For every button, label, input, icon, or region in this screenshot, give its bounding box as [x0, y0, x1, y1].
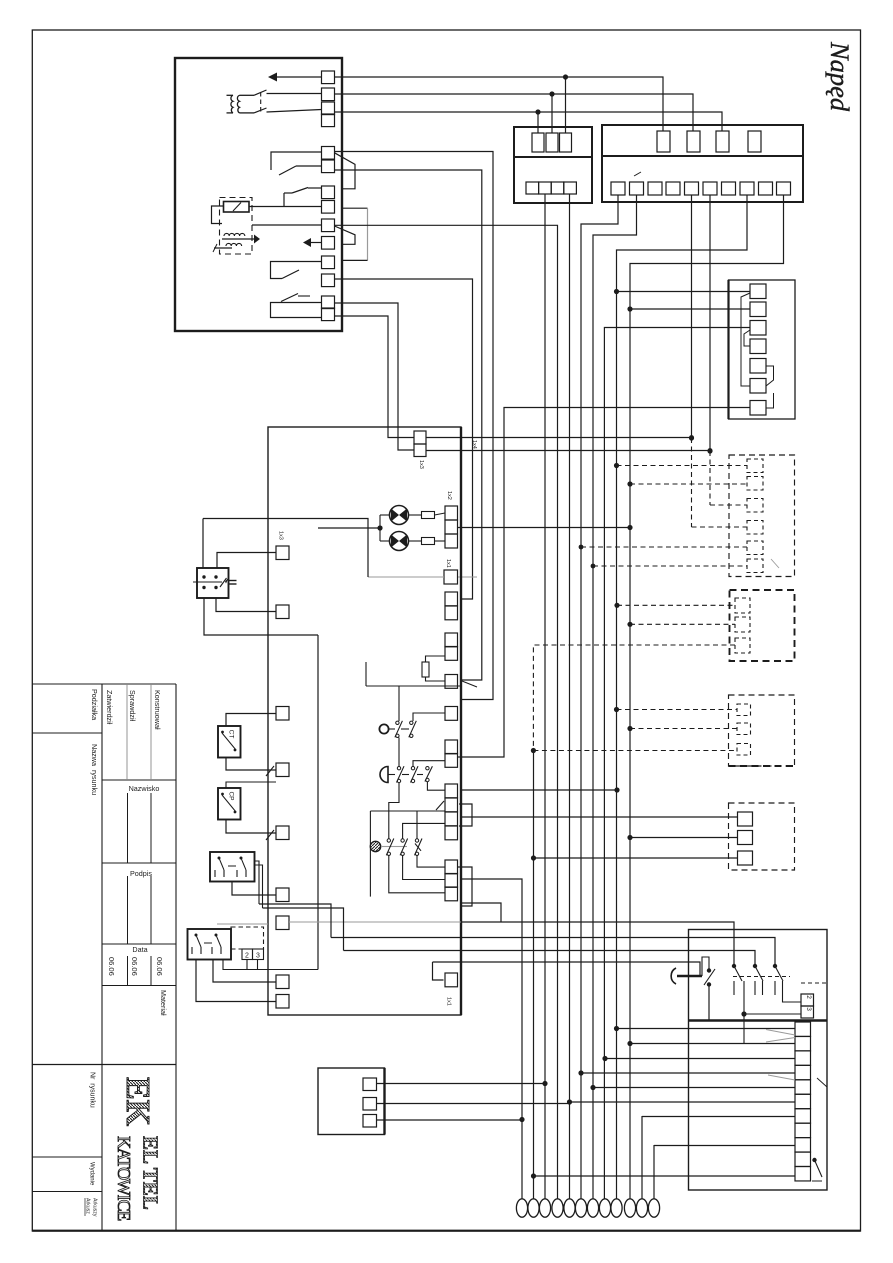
wire: [370, 810, 445, 812]
wire bus m: [630, 195, 784, 1199]
wire bus n: [461, 879, 522, 1199]
wire bus p: [641, 1116, 643, 1199]
cable connector CN1 pins: [516, 1199, 527, 1217]
wire L2: [335, 94, 694, 131]
svg-text:06.06: 06.06: [107, 957, 116, 976]
wire: [783, 995, 802, 1002]
wire: [263, 908, 344, 951]
junction box J1: [318, 1068, 385, 1135]
wire: [413, 761, 445, 767]
indicator lamp: [390, 506, 409, 525]
D3 terminal dashed: [737, 723, 751, 735]
wire: [398, 738, 400, 767]
wire: [433, 962, 701, 976]
wire: [702, 957, 709, 976]
faint wire: [289, 921, 461, 923]
tick: [771, 559, 779, 568]
X1 terminal 3: [551, 182, 564, 194]
wire bus c: [335, 279, 473, 599]
wire: [226, 820, 276, 834]
wire: [426, 656, 446, 662]
terminal 3: [801, 1006, 814, 1018]
dashed wire: [709, 451, 711, 505]
svg-text:Nazwisko: Nazwisko: [129, 784, 160, 793]
TB1 terminal 2: [795, 1036, 811, 1050]
connector block X2: [602, 125, 803, 202]
switch blade: [279, 166, 296, 175]
wire: [216, 598, 276, 612]
wire to TB: [630, 1043, 795, 1045]
aux terminal 2: [242, 949, 253, 960]
wire: [461, 922, 734, 966]
junction: [614, 289, 619, 294]
wire: [379, 515, 381, 541]
contact K3 (terminals 11/12): [271, 262, 322, 279]
svg-text:Nazwa rysunku: Nazwa rysunku: [90, 744, 99, 795]
wire: [277, 76, 322, 78]
junction: [567, 1099, 572, 1104]
A1 stub 7: [766, 393, 774, 408]
transformer windings lower: [224, 233, 245, 236]
control box left terminals: [276, 546, 289, 560]
bus bar: [689, 1019, 828, 1021]
wire: [377, 1083, 546, 1085]
svg-text:1x2: 1x2: [446, 491, 452, 500]
switch blade: [704, 969, 715, 985]
A1 internal link 1-6: [741, 293, 750, 386]
tick: [436, 801, 444, 810]
auxiliary box A1: [729, 280, 796, 419]
junction: [627, 306, 632, 311]
svg-text:Zatwierdził: Zatwierdził: [105, 690, 114, 725]
D1 terminal dashed: [747, 521, 763, 535]
contact blade: [397, 766, 405, 782]
junction: [689, 435, 694, 440]
wire: [403, 823, 445, 838]
junction: [614, 603, 619, 608]
wire tap to X1: [551, 94, 553, 133]
winding lead: [227, 94, 234, 96]
tick mark: [634, 172, 641, 176]
resistor R3: [422, 662, 429, 677]
wire 1x3 to bus s: [426, 450, 710, 452]
relay dashed outline: [220, 198, 253, 255]
wire: [534, 857, 738, 859]
svg-text:Podziałka: Podziałka: [90, 689, 99, 720]
wire to TB: [593, 1087, 795, 1089]
junction: [614, 463, 619, 468]
switch blade: [254, 90, 267, 95]
junction: [627, 1041, 632, 1046]
transformer T1 windings: [231, 95, 233, 113]
TB1 terminal 11: [795, 1167, 811, 1181]
wire: [413, 713, 445, 721]
TB1 terminal 3: [795, 1051, 811, 1065]
switch blade: [282, 270, 299, 279]
module external jumper J3 (terminals 9-10): [335, 226, 356, 244]
wire to A1-2: [630, 308, 750, 310]
tick: [266, 830, 274, 840]
junction: [531, 748, 536, 753]
junction: [627, 726, 632, 731]
svg-text:2: 2: [805, 995, 812, 999]
wire bus e to A1-7: [458, 408, 751, 758]
wire to terminal 9: [252, 224, 322, 226]
svg-text:Sprawdził: Sprawdził: [128, 690, 137, 722]
wire: [398, 686, 400, 721]
winding lead: [240, 94, 255, 96]
arrow into terminal 1: [268, 73, 277, 82]
svg-text:KATOWICE: KATOWICE: [114, 1136, 134, 1221]
control box K1: [268, 427, 461, 1015]
wire bus r: [691, 195, 693, 438]
wire: [369, 811, 371, 897]
faint wire: [368, 576, 444, 578]
wire: [377, 1119, 523, 1121]
svg-text:Materiał: Materiał: [159, 990, 168, 1016]
module external jumper J2 (terminals 8-11): [342, 207, 368, 209]
X1 terminal 4: [564, 182, 577, 194]
junction: [542, 1081, 547, 1086]
junction: [579, 545, 584, 550]
wire to TB: [642, 1116, 795, 1118]
svg-text:CP: CP: [228, 791, 235, 800]
dashed wire: [581, 546, 747, 548]
switch blade: [775, 966, 783, 981]
wire bus q: [653, 1145, 655, 1199]
switch blade: [815, 1160, 823, 1177]
switch blade: [281, 294, 298, 302]
A1 terminal 1: [750, 284, 766, 299]
terminal 2: [801, 994, 814, 1006]
aux contact dashed: [231, 927, 264, 949]
motor symbol M1: [370, 841, 380, 851]
svg-text:CT: CT: [228, 730, 235, 739]
junction: [627, 525, 632, 530]
A1 terminal 3: [750, 321, 766, 336]
dashed wire: [533, 645, 735, 751]
junction: [707, 448, 712, 453]
dashed gang link: [733, 976, 790, 978]
indicator lamp: [390, 532, 409, 551]
D1 terminal dashed: [747, 459, 763, 473]
junction: [707, 982, 711, 986]
junction: [708, 448, 713, 453]
module external jumper J1 (terminals 5-7): [335, 153, 356, 189]
switch blade: [254, 108, 267, 113]
wire: [196, 960, 276, 1002]
capacitor C1: [229, 580, 237, 582]
junction: [627, 622, 632, 627]
wire: [255, 865, 263, 908]
svg-text:3: 3: [805, 1007, 812, 1011]
D2 terminal dashed: [735, 638, 750, 653]
dashed wire: [593, 565, 747, 567]
wire: [214, 247, 232, 249]
dashed unit D4: [729, 803, 795, 870]
wire module to 1x3: [335, 303, 415, 450]
wire bus f: [544, 194, 546, 1199]
junction: [732, 964, 736, 968]
TB1 terminal 5: [795, 1080, 811, 1094]
D1 terminal dashed: [747, 559, 763, 573]
terminal 1x2: [445, 506, 458, 520]
wire: [223, 960, 318, 970]
relay CP: [218, 788, 241, 820]
svg-text:Arkuszy: Arkuszy: [92, 1198, 98, 1217]
contact blade: [415, 839, 423, 856]
terminal 1x3 a: [414, 431, 426, 444]
X2 terminal 1: [611, 182, 625, 195]
junction: [812, 1158, 816, 1162]
svg-text:1x3: 1x3: [278, 531, 284, 540]
junction: [614, 1026, 619, 1031]
junction: [741, 1011, 746, 1016]
TB1 terminal 9: [795, 1138, 811, 1152]
svg-text:3: 3: [256, 953, 260, 960]
X2 terminal 8: [740, 182, 754, 195]
wire bus s: [709, 195, 711, 451]
wire: [217, 553, 276, 569]
wire: [203, 519, 368, 578]
TB1 terminal 8: [795, 1123, 811, 1137]
wire 1x3 to bus r: [426, 437, 692, 439]
wire: [427, 782, 445, 791]
wire: [202, 519, 204, 569]
module U1 terminal squares: [322, 71, 335, 84]
wire: [232, 882, 276, 896]
X2 fuse 3: [716, 131, 729, 152]
wire bus a: [335, 152, 494, 700]
wire bus i: [581, 195, 618, 1199]
relay CT: [218, 726, 241, 758]
wire: [255, 861, 260, 904]
J1 terminal: [363, 1078, 377, 1091]
wire: [743, 995, 745, 1044]
wire module to 1x3: [335, 316, 415, 438]
junction: [627, 481, 632, 486]
svg-text:Arkusz: Arkusz: [85, 1198, 91, 1214]
D2 terminal dashed: [735, 617, 750, 632]
wire to A1-1: [617, 291, 751, 293]
dashed wire: [630, 623, 735, 625]
wire: [366, 685, 461, 687]
X2 terminal 10: [777, 182, 791, 195]
plug symbol: [671, 968, 676, 984]
wire tap to X1: [537, 112, 539, 133]
junction: [614, 787, 619, 792]
wire: [417, 856, 445, 868]
A1 internal link 5-6: [766, 366, 774, 386]
contact blade: [386, 839, 394, 856]
wire to TB: [581, 1072, 795, 1074]
wire: [460, 789, 617, 791]
contact K4 (terminals 13/14): [271, 303, 322, 318]
wire: [267, 110, 322, 113]
junction: [531, 855, 536, 860]
D3 terminal dashed: [737, 744, 751, 756]
X2 fuse 1: [657, 131, 670, 152]
wire: [389, 856, 445, 893]
cross tick: [415, 844, 421, 851]
terminal 1x1 upper: [444, 570, 458, 584]
resistor R1: [422, 512, 435, 519]
A1 internal link 3-4: [744, 330, 750, 346]
X2 terminal 7: [722, 182, 736, 195]
winding lead: [240, 112, 255, 114]
junction: [753, 964, 757, 968]
dashed wire: [630, 728, 737, 730]
link loop 2: [458, 867, 472, 906]
aux terminal 3: [253, 949, 264, 960]
A1 terminal 6: [750, 379, 766, 394]
plug lead: [677, 975, 702, 978]
control box right terminals: [445, 592, 458, 606]
contact: [222, 733, 236, 750]
junction: [377, 525, 382, 530]
junction: [549, 91, 554, 96]
switch blade: [292, 188, 308, 194]
svg-text:Podpis: Podpis: [130, 869, 152, 878]
wire: [744, 1013, 801, 1015]
motor capacitor box M2: [197, 568, 229, 598]
wire: [331, 938, 775, 967]
dashed wire: [533, 750, 737, 752]
X1 fuse 1: [532, 133, 544, 152]
dashed unit D1: [729, 455, 795, 577]
X1 terminal 1: [526, 182, 539, 194]
X2 fuse 4: [748, 131, 761, 152]
D1 terminal dashed: [747, 499, 763, 513]
X1 fuse 3: [560, 133, 572, 152]
X2 terminal 4: [666, 182, 680, 195]
svg-text:2: 2: [245, 953, 249, 960]
junction: [535, 109, 540, 114]
svg-text:1x1: 1x1: [446, 997, 452, 1006]
wire bus h: [569, 194, 571, 1199]
A1 terminal 4: [750, 339, 766, 354]
X2 terminal 5: [685, 182, 699, 195]
svg-text:1x3: 1x3: [418, 460, 424, 469]
wire: [630, 837, 738, 839]
TB1 terminal 7: [795, 1109, 811, 1123]
dashed wire: [801, 982, 827, 984]
wire bus l: [617, 195, 748, 1199]
junction: [531, 1173, 536, 1178]
wire: [426, 677, 446, 681]
contact K2 (terminal 7): [283, 193, 285, 207]
faint wire: [217, 923, 268, 925]
contact blade: [400, 839, 408, 856]
svg-text:1x1: 1x1: [445, 559, 451, 568]
wire: [257, 960, 259, 970]
wire bus k to A1-3: [604, 328, 750, 1200]
wire: [416, 811, 418, 839]
wire L3: [335, 112, 723, 131]
D4 terminal: [738, 812, 753, 826]
resistor R2: [422, 538, 435, 545]
switch blade: [755, 966, 763, 981]
dashed wire: [617, 604, 735, 606]
wire bus j: [593, 195, 637, 1199]
module U1 enclosure: [175, 58, 342, 331]
junction: [578, 1070, 583, 1075]
contact: [220, 578, 227, 587]
D2 terminal dashed: [735, 598, 750, 613]
X2 terminal 3: [648, 182, 662, 195]
winding lead: [227, 112, 234, 114]
wire: [226, 758, 276, 771]
wire: [226, 714, 276, 727]
wire: [433, 962, 444, 980]
A1 terminal 7: [750, 401, 766, 416]
svg-text:Data: Data: [132, 945, 147, 954]
X2 terminal 6: [703, 182, 717, 195]
faint wire: [458, 576, 478, 578]
contact blade: [395, 721, 403, 738]
svg-text:Napęd: Napęd: [825, 41, 855, 112]
D1 terminal dashed: [747, 477, 763, 491]
contact blade: [425, 766, 433, 781]
wire: [461, 903, 501, 922]
junction: [707, 968, 711, 972]
wire to TB: [534, 1175, 796, 1177]
wire to terminal 8: [249, 206, 322, 208]
contact K1 (terminals 5/6): [271, 152, 322, 170]
J1 terminal: [363, 1098, 377, 1111]
X2 terminal 9: [759, 182, 773, 195]
terminal 1x3 b: [414, 444, 426, 457]
wire bus g: [335, 225, 558, 1199]
link loop 1: [459, 804, 472, 826]
wire bus o: [533, 751, 535, 1200]
TB1 terminal 10: [795, 1152, 811, 1166]
relay element: [224, 202, 250, 213]
J1 terminal: [363, 1115, 377, 1128]
wire to TB: [654, 1145, 795, 1147]
tick: [266, 766, 274, 776]
wire: [389, 783, 399, 839]
switch blade: [734, 966, 742, 981]
svg-text:Wydanie: Wydanie: [89, 1162, 95, 1186]
dashed wire: [617, 465, 748, 467]
junction: [773, 964, 777, 968]
wire with arrow: [222, 238, 254, 240]
wire: [226, 782, 276, 788]
D4 terminal: [738, 851, 753, 865]
dashed wire: [692, 526, 748, 528]
wire: [212, 206, 224, 224]
svg-text:EL TEL: EL TEL: [139, 1136, 163, 1210]
wire to TB: [605, 1058, 795, 1060]
contact blade: [409, 721, 417, 738]
dashed wire: [691, 438, 693, 527]
contact: [222, 795, 236, 812]
tick: [817, 1078, 827, 1087]
svg-text:Nr rysunku: Nr rysunku: [89, 1072, 96, 1108]
junction: [563, 74, 568, 79]
junction: [689, 435, 694, 440]
junction: [602, 1056, 607, 1061]
slant entry: [462, 681, 477, 687]
wire: [365, 662, 367, 686]
wire: [246, 960, 248, 970]
wire: [259, 904, 331, 938]
lamp dome symbol: [380, 767, 388, 783]
connector block X1: [514, 127, 592, 203]
switch box S1: [689, 930, 828, 1191]
svg-text:EK: EK: [119, 1077, 156, 1127]
